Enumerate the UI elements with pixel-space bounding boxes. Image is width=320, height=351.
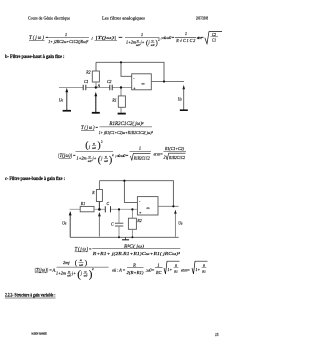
svg-text:C: C [107, 202, 110, 206]
svg-text:2: 2 [112, 153, 114, 157]
svg-text:R: R [132, 262, 136, 267]
svg-text:R: R [202, 264, 206, 268]
svg-text:ω0: ω0 [79, 263, 83, 267]
svg-text:1+2m: 1+2m [77, 156, 87, 161]
svg-text:et m=: et m= [154, 151, 164, 156]
svg-text:(: ( [75, 258, 78, 267]
svg-text:1+2m: 1+2m [126, 39, 136, 44]
svg-text:C1: C1 [84, 80, 89, 84]
svg-text:C2: C2 [212, 33, 216, 37]
svg-text:R1R2C1C2( jω)²: R1R2C1C2( jω)² [108, 121, 144, 127]
svg-text:C1: C1 [212, 39, 216, 43]
svg-text:ω0: ω0 [136, 43, 140, 47]
svg-text:1: 1 [139, 146, 141, 151]
svg-text:Ue: Ue [59, 99, 64, 103]
svg-text:ω0: ω0 [67, 274, 71, 278]
svg-text:1: 1 [185, 31, 187, 36]
svg-text:R1: R1 [173, 269, 178, 273]
svg-text:j+: j+ [140, 39, 145, 44]
svg-text:ω0: ω0 [151, 43, 155, 47]
svg-text:1: 1 [65, 32, 67, 37]
svg-text:∞: ∞ [147, 205, 150, 210]
svg-text:1: 1 [141, 32, 143, 37]
svg-text:R+R1+ j(2R.R1+R1)Cω+R1( jRCω)²: R+R1+ j(2R.R1+R1)Cω+R1( jRCω)² [91, 251, 180, 256]
svg-text:et m=: et m= [181, 267, 190, 272]
svg-text:où : A =: où : A = [112, 267, 126, 272]
svg-text:ω0: ω0 [92, 146, 96, 150]
svg-text:Ue: Ue [62, 222, 67, 226]
svg-text:; où ω0 =: ; où ω0 = [161, 35, 175, 40]
svg-text:R1: R1 [201, 269, 206, 273]
svg-text:15: 15 [215, 333, 219, 337]
svg-text:ω0: ω0 [88, 159, 92, 163]
svg-text:; où ω0 =: ; où ω0 = [115, 153, 129, 158]
svg-text:R√C1C2: R√C1C2 [175, 38, 195, 43]
svg-text:RC: RC [155, 270, 162, 275]
svg-text:|T(jω)|: |T(jω)| [34, 268, 48, 273]
svg-text:C: C [111, 223, 114, 227]
svg-text:ω0: ω0 [104, 159, 108, 163]
svg-text:Les filtres analogiques: Les filtres analogiques [102, 16, 145, 21]
svg-text:j: j [80, 270, 83, 275]
svg-text:2: 2 [92, 267, 94, 271]
svg-text:j: j [100, 156, 103, 161]
svg-text:|T(jω)|: |T(jω)| [58, 154, 72, 159]
svg-text:1+ jR1(C1+C2)ω+R1R2C1C2( jω)²: 1+ jR1(C1+C2)ω+R1R2C1C2( jω)² [99, 130, 154, 135]
svg-text:ω0: ω0 [84, 274, 88, 278]
svg-text:1+: 1+ [168, 267, 173, 272]
svg-text:M.BEN HAMED: M.BEN HAMED [32, 332, 48, 335]
svg-text:C2: C2 [107, 80, 112, 84]
svg-text:R1R2C1C2: R1R2C1C2 [133, 156, 150, 160]
svg-text:R: R [174, 264, 178, 268]
svg-text:): ) [85, 258, 88, 267]
svg-text:Cours de Génie électrique: Cours de Génie électrique [28, 16, 70, 21]
svg-text:1+: 1+ [196, 267, 201, 272]
svg-text:∞: ∞ [142, 81, 145, 86]
svg-text:Us: Us [178, 221, 183, 225]
svg-text:2007/2008: 2007/2008 [196, 16, 209, 21]
svg-text:R2: R2 [85, 71, 90, 75]
svg-text:; ω0 =: ; ω0 = [146, 267, 155, 272]
svg-text:Us: Us [178, 97, 183, 101]
svg-text:1+ j2RC2ω+C1C2(jRω)²: 1+ j2RC2ω+C1C2(jRω)² [48, 39, 89, 44]
svg-text:et m=: et m= [197, 35, 204, 40]
svg-text:R1(C1+C2): R1(C1+C2) [164, 146, 185, 151]
svg-text:2: 2 [101, 140, 103, 144]
svg-text:R1: R1 [80, 202, 85, 206]
svg-text:ω: ω [80, 258, 83, 262]
svg-text:j: j [88, 144, 91, 149]
svg-text:2: 2 [164, 155, 166, 160]
svg-text:1+2m: 1+2m [56, 270, 66, 275]
svg-text:=: = [89, 246, 92, 251]
svg-text:c- Filtre passe-bande à gain f: c- Filtre passe-bande à gain fixe : [5, 177, 65, 182]
svg-text:(: ( [85, 140, 88, 151]
svg-text:; |T(jω)| =: ; |T(jω)| = [91, 35, 123, 40]
svg-text:= A.: = A. [49, 267, 56, 272]
svg-text:j+: j+ [71, 270, 76, 275]
svg-text:R: R [91, 191, 95, 195]
svg-text:j+: j+ [92, 156, 97, 161]
svg-text:2(R+R1): 2(R+R1) [127, 270, 145, 275]
svg-text:R²C( jω): R²C( jω) [123, 243, 145, 248]
svg-text:R1: R1 [111, 99, 116, 103]
svg-text:2mj: 2mj [63, 260, 70, 265]
svg-text:b- Filtre passe-haut à gain fi: b- Filtre passe-haut à gain fixe : [5, 55, 65, 60]
svg-text:1: 1 [157, 262, 159, 267]
svg-text:R2: R2 [136, 219, 141, 223]
svg-text:T(jω): T(jω) [29, 36, 44, 41]
svg-text:R1R2C1C2: R1R2C1C2 [168, 156, 185, 160]
